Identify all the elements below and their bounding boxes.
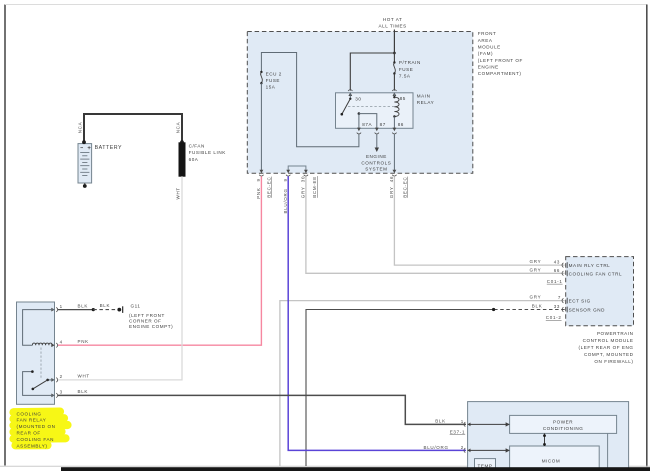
svg-text:NCA: NCA [175,122,180,134]
svg-text:GRY: GRY [389,186,394,198]
svg-text:CORNER OF: CORNER OF [129,318,162,323]
svg-text:ENGINE COMPT): ENGINE COMPT) [129,324,173,329]
fan control module box [468,402,629,471]
svg-text:GRY: GRY [301,186,306,198]
node: fusible link terminal [180,140,184,144]
battery bottom stub [84,183,86,185]
svg-text:GRY: GRY [530,295,542,300]
svg-text:COMPARTMENT): COMPARTMENT) [478,71,522,76]
wire WHT from fusible link to relay pin 2 [58,176,182,380]
svg-text:NCA: NCA [77,122,82,134]
MICOM box [510,446,600,471]
svg-text:3: 3 [60,390,63,395]
FAM module box (dashed) [247,32,472,174]
pin 87 exit chevron [375,128,379,134]
svg-text:C/FAN: C/FAN [189,144,205,149]
wire GRY from PCM pin 7 down to temp sensor [280,301,565,466]
battery + terminal mark [88,146,91,149]
svg-text:BLK: BLK [435,418,446,423]
svg-text:FUSE: FUSE [399,67,413,72]
wire BLK pin3 to power conditioning pin 1 [58,395,466,424]
pin 30 entry chevron [348,90,352,96]
fuse ECU 2 15A [260,71,262,73]
svg-text:AREA: AREA [478,38,493,43]
wire GRY (BCM-EE) from FAM to PCM pin 66 [306,176,565,273]
svg-text:FAN RELAY: FAN RELAY [17,418,47,423]
svg-text:HOT AT: HOT AT [383,17,402,22]
svg-text:60A: 60A [189,157,199,162]
node: fixed contact [31,370,34,373]
svg-text:(LEFT FRONT: (LEFT FRONT [129,313,165,318]
svg-text:ASSEMBLY): ASSEMBLY) [17,443,48,448]
svg-text:FUSE: FUSE [266,78,280,83]
svg-text:ON FIREWALL): ON FIREWALL) [594,359,633,364]
wire: battery feed from HOT AT ALL TIMES into FAM [393,30,395,54]
relay coil [393,93,395,97]
svg-text:POWERTRAIN: POWERTRAIN [597,331,634,336]
node: battery terminal [82,140,86,144]
pin 1 chevron [51,307,57,312]
svg-text:BEC-EC: BEC-EC [266,177,271,198]
fusible link C/FAN 60A [179,143,185,176]
svg-text:BLK: BLK [532,304,543,309]
svg-text:MAIN RLY CTRL: MAIN RLY CTRL [569,263,611,268]
svg-text:CONDITIONING: CONDITIONING [543,426,584,431]
svg-text:7.5A: 7.5A [399,73,411,78]
PCM pin 43 connector [562,262,567,268]
node: ground splice [92,308,95,311]
fuse P/TRAIN 7.5A [393,53,395,63]
module pin 1 connector [464,422,471,427]
svg-text:RELAY: RELAY [417,100,434,105]
wire BLK sensor ground vertical [494,309,565,311]
node: 87A contact [358,112,361,115]
wire BLK pin1 to G11 [58,309,94,311]
svg-text:2: 2 [60,374,63,379]
pin 1 internal wire to power conditioning [468,423,507,425]
FAM exit chevron GRY 46 [392,170,396,176]
page frame top border [5,4,647,6]
pin 4 chevron [51,343,57,348]
svg-text:87: 87 [380,122,386,127]
svg-text:ENGINE: ENGINE [366,154,387,159]
svg-text:66: 66 [554,268,560,273]
node: feed junction [393,52,396,55]
svg-text:1: 1 [461,419,464,424]
svg-text:MICOM: MICOM [542,459,561,464]
svg-text:9: 9 [283,178,288,181]
svg-text:MAIN: MAIN [417,94,431,99]
pin 30 stub and label [349,93,351,99]
svg-text:ENGINE: ENGINE [478,65,499,70]
svg-text:(MOUNTED ON: (MOUNTED ON [17,424,56,429]
svg-text:30: 30 [301,176,306,182]
svg-text:ECT SIG: ECT SIG [569,299,591,304]
wire power conditioning right leg [607,433,609,471]
module pin 2 connector [464,448,471,453]
svg-text:BLK: BLK [78,303,89,308]
svg-text:(FAM): (FAM) [478,51,493,56]
relay switch arm [342,99,351,114]
node: sensor ground splice [492,308,495,311]
page frame bottom line [0,465,650,467]
battery B1 [78,144,92,183]
label COOLING FAN RELAY with yellow highlight [14,412,68,446]
wire power conditioning to MICOM [544,433,546,446]
pin 2 internal wire to MICOM [468,449,507,451]
svg-text:POWER: POWER [553,419,573,424]
svg-text:FUSIBLE LINK: FUSIBLE LINK [189,150,227,155]
PCM pin 7 connector [562,298,567,304]
relay actuator dashed link [348,105,397,107]
svg-text:C01-1: C01-1 [547,279,563,284]
wire BLU/ORG from FAM to micom pin 2 [288,176,466,450]
wire: contact to pins 87A and 87 [358,114,360,129]
svg-text:PNK: PNK [78,339,89,344]
TEMP box [475,459,496,471]
pin 87A exit chevron [357,128,361,134]
svg-text:7: 7 [558,295,561,300]
svg-text:BCM-EE: BCM-EE [312,176,317,198]
svg-text:33: 33 [554,304,560,309]
svg-text:BLK: BLK [78,389,89,394]
switch arm pin 2 [48,379,55,381]
svg-text:BLU/ORG: BLU/ORG [283,188,288,213]
ground G11 symbol [117,308,121,312]
svg-text:ECU 2: ECU 2 [266,71,282,76]
node: splice bracket BLU/ORG - GRY [288,166,306,172]
relay actuator dashed link (vertical) [40,348,42,380]
wire: branch to relay pin 30 [350,53,394,91]
svg-text:43: 43 [554,260,560,265]
pin 3 chevron [51,393,57,398]
svg-text:85: 85 [400,96,406,101]
svg-text:86: 86 [398,122,404,127]
svg-text:P/TRAIN: P/TRAIN [399,60,421,65]
wire pin 3 to fixed contact [23,372,55,396]
svg-text:REAR OF: REAR OF [17,431,41,436]
page frame right border [646,5,648,468]
bottom black bar [61,467,650,471]
PCM module box (dashed) [566,257,634,326]
svg-text:SENSOR GND: SENSOR GND [569,308,606,313]
relay coil feed from pin 1 [23,310,55,346]
svg-text:(LEFT FRONT OF: (LEFT FRONT OF [478,58,523,63]
svg-text:GRY: GRY [530,267,542,272]
svg-text:BLU/ORG: BLU/ORG [424,445,449,450]
svg-text:4: 4 [60,339,63,344]
svg-text:46: 46 [389,176,394,182]
wire: ECU2 fuse to FAM exit [260,83,262,171]
svg-text:SYSTEM: SYSTEM [365,167,387,172]
relay coil (cooling fan relay) [32,343,52,345]
FAM exit chevron PNK [259,170,263,176]
svg-text:1: 1 [60,304,63,309]
wire PNK from FAM to cooling fan relay pin 4 [58,176,262,345]
POWER CONDITIONING box [510,415,617,433]
svg-text:GRY: GRY [530,259,542,264]
wire: pin 86 down to FAM exit [393,134,395,171]
svg-text:(LEFT REAR OF ENG: (LEFT REAR OF ENG [579,345,634,350]
svg-text:CONTROL MODULE: CONTROL MODULE [583,338,634,343]
PCM pin 33 connector [562,307,567,313]
svg-text:COOLING: COOLING [17,411,42,416]
svg-text:MODULE: MODULE [478,45,501,50]
svg-text:G11: G11 [131,303,141,308]
svg-text:CONTROLS: CONTROLS [361,160,391,165]
pin 2 chevron [51,378,57,383]
pin 86 exit chevron [392,128,396,134]
wire GRY 46 from FAM to PCM pin 43 [394,176,564,265]
FAM exit chevron GRY 30 [304,170,308,176]
svg-text:WHT: WHT [78,374,90,379]
FAM exit chevron BLU/ORG [286,170,290,176]
wire: pin 87 to engine controls system [376,134,378,148]
wire: ECU2 fuse path from relay 87A [261,53,359,147]
wire: battery positive feed [84,114,182,142]
wire BLK dashed to ground [93,309,116,311]
svg-text:15A: 15A [266,85,276,90]
svg-text:COOLING FAN CTRL: COOLING FAN CTRL [569,271,622,276]
pin 85 entry chevron [392,90,396,96]
svg-text:WHT: WHT [175,187,180,199]
svg-text:COMPT, MOUNTED: COMPT, MOUNTED [584,352,634,357]
svg-text:ALL TIMES: ALL TIMES [379,24,407,29]
svg-text:BATTERY: BATTERY [95,145,122,151]
svg-text:BEC-EC: BEC-EC [403,177,408,198]
PCM pin 66 connector [562,270,567,276]
svg-text:E37-1: E37-1 [450,430,466,435]
svg-text:FRONT: FRONT [478,31,497,36]
svg-text:COOLING FAN: COOLING FAN [17,437,54,442]
page frame left border [4,5,6,466]
svg-text:2: 2 [461,445,464,450]
relay U1 MAIN RELAY box [336,93,414,129]
svg-text:BLK: BLK [100,303,111,308]
svg-text:87A: 87A [362,122,372,127]
svg-text:C01-2: C01-2 [546,315,562,320]
svg-text:30: 30 [355,96,361,101]
cooling fan relay K1 box [17,302,55,404]
svg-text:9: 9 [256,178,261,181]
svg-text:PNK: PNK [256,187,261,198]
